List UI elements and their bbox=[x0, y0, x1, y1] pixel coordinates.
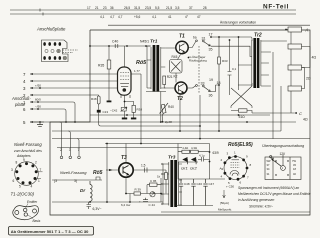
svg-text:Rö5: Rö5 bbox=[136, 60, 147, 66]
svg-text:4,4Ω: 4,4Ω bbox=[182, 146, 188, 150]
output resistor box 2 bbox=[288, 44, 302, 49]
T2 wires bbox=[164, 85, 196, 89]
connector pins row2 (4 black pins) bbox=[43, 56, 61, 60]
svg-text:6: 6 bbox=[13, 179, 15, 183]
top ruler voltage labels row1 bbox=[87, 6, 207, 10]
svg-text:+: + bbox=[139, 200, 141, 204]
svg-text:2Ω: 2Ω bbox=[306, 77, 311, 81]
svg-text:C40: C40 bbox=[112, 40, 118, 44]
inner Nivell-Fassung pins 2 3 7 bbox=[60, 122, 81, 159]
rectifier sub-box frame bbox=[178, 144, 225, 180]
electrolytic C47 bbox=[203, 179, 207, 206]
top ruler wire A bbox=[10, 9, 296, 11]
bus wire d bbox=[52, 130, 281, 132]
wire top inside box bbox=[90, 45, 150, 47]
transformer Tr2 core bars bbox=[253, 38, 256, 88]
svg-text:19: 19 bbox=[209, 78, 213, 82]
svg-text:NF-Teil: NF-Teil bbox=[263, 4, 289, 11]
ground symbol on wire 5 bbox=[37, 122, 43, 126]
pin wire 4 bbox=[30, 80, 118, 82]
svg-text:9: 9 bbox=[23, 158, 25, 162]
svg-text:N45/1: N45/1 bbox=[140, 40, 149, 44]
svg-text:+/50: +/50 bbox=[35, 84, 41, 88]
lower bus wires bbox=[52, 202, 310, 212]
svg-text:Tr2: Tr2 bbox=[254, 33, 262, 39]
svg-text:T1: T1 bbox=[179, 34, 185, 40]
svg-text:Anschluß-: Anschluß- bbox=[11, 96, 31, 101]
svg-text:R38: R38 bbox=[137, 108, 143, 112]
svg-text:−C42: −C42 bbox=[110, 109, 118, 113]
svg-text:23,5: 23,5 bbox=[145, 6, 151, 10]
Tr1 winding lines bbox=[146, 46, 166, 92]
svg-text:Übertragungsumschaltung: Übertragungsumschaltung bbox=[262, 144, 304, 148]
svg-text:+5,6: +5,6 bbox=[134, 15, 141, 19]
svg-text:4,1µ: 4,1µ bbox=[199, 154, 205, 158]
diode Gr1 bbox=[182, 157, 187, 162]
svg-text:6,2 Uw: 6,2 Uw bbox=[121, 203, 131, 207]
EL95 pin numbers bbox=[220, 151, 252, 186]
svg-text:zum Anschluß des: zum Anschluß des bbox=[13, 149, 42, 153]
transistor T3 bbox=[119, 163, 133, 177]
pin wire 3 with +/50 label bbox=[30, 87, 117, 89]
svg-text:3): 3) bbox=[74, 179, 77, 183]
svg-text:26,5: 26,5 bbox=[124, 6, 130, 10]
svg-text:Tr3: Tr3 bbox=[168, 155, 176, 161]
svg-text:7W: 7W bbox=[292, 159, 296, 163]
connector middle contacts bbox=[45, 49, 67, 60]
bus wire b bbox=[30, 121, 296, 123]
svg-text:Gr2: Gr2 bbox=[190, 166, 197, 171]
pin wire 7 bbox=[30, 73, 141, 75]
svg-text:K2: K2 bbox=[174, 75, 178, 79]
resistor R39 bbox=[134, 192, 141, 195]
svg-text:Meßpunkt: Meßpunkt bbox=[218, 208, 232, 212]
svg-text:63/9: 63/9 bbox=[213, 151, 219, 155]
tube cathode network C42 bbox=[125, 95, 134, 117]
resistor row wire bbox=[178, 151, 210, 153]
svg-text:6,3V~: 6,3V~ bbox=[93, 207, 102, 211]
diode row wire bbox=[178, 161, 198, 163]
capacitor C49 bbox=[145, 168, 148, 173]
svg-text:4: 4 bbox=[31, 185, 33, 189]
T1 emitter wire to switch bbox=[165, 42, 195, 49]
svg-text:T1-2(OC30): T1-2(OC30) bbox=[11, 192, 35, 197]
svg-text:4,3Ω: 4,3Ω bbox=[191, 146, 197, 150]
capacitor C43 bbox=[198, 157, 210, 162]
transformer Tr1 core bars bbox=[153, 45, 156, 92]
switch contact group upper (31/32) bbox=[196, 37, 252, 131]
switching box bbox=[265, 155, 301, 180]
svg-text:4,1: 4,1 bbox=[100, 15, 105, 19]
svg-text:A: A bbox=[305, 28, 309, 33]
electrolytic C48 bbox=[179, 179, 183, 206]
wire below heading bbox=[108, 24, 310, 26]
transformer Tr3 core bars bbox=[170, 160, 173, 207]
bus wire g bbox=[57, 147, 182, 149]
Tr2 input wires bbox=[238, 37, 247, 90]
svg-text:Strichlinie: 4,5V~: Strichlinie: 4,5V~ bbox=[249, 205, 273, 209]
svg-text:Meßbereichen DC/12V gegen Mass: Meßbereichen DC/12V gegen Masse und Erdl… bbox=[238, 192, 311, 196]
svg-text:51Ω: 51Ω bbox=[239, 115, 246, 119]
resistor R44 bbox=[182, 150, 190, 153]
svg-text:Nivell-Fassung: Nivell-Fassung bbox=[60, 170, 87, 175]
diode Gr3 circled bbox=[150, 192, 155, 197]
svg-text:C13: C13 bbox=[103, 110, 109, 114]
svg-text:Nivell-Fassung: Nivell-Fassung bbox=[14, 142, 42, 147]
svg-text:R 39: R 39 bbox=[135, 188, 142, 192]
diode Gr2 bbox=[191, 157, 196, 162]
svg-text:Anschlußplatte: Anschlußplatte bbox=[36, 27, 66, 32]
svg-text:7: 7 bbox=[40, 168, 42, 172]
bus junction dots bbox=[106, 84, 248, 144]
svg-text:R40: R40 bbox=[168, 105, 174, 109]
OC30 package outline bbox=[13, 206, 39, 220]
svg-text:Ag: Ag bbox=[220, 167, 224, 171]
svg-text:35: 35 bbox=[209, 48, 213, 52]
crossing output wires bbox=[231, 83, 252, 113]
svg-text:R45: R45 bbox=[172, 55, 178, 59]
Tr3 winding lines bbox=[162, 162, 183, 206]
svg-text:2: 2 bbox=[35, 161, 37, 165]
svg-text:(3: (3 bbox=[54, 179, 57, 183]
left socket circle pins bbox=[15, 162, 39, 186]
Tr2 winding lines bbox=[247, 37, 287, 86]
resistor R37 51ohm bbox=[239, 109, 248, 112]
svg-text:1,5: 1,5 bbox=[141, 164, 146, 168]
pin wire 5 bbox=[30, 121, 44, 123]
svg-text:C: C bbox=[299, 111, 302, 116]
svg-text:21: 21 bbox=[95, 6, 99, 10]
main frame border bbox=[50, 30, 310, 215]
svg-text:[50µA]: [50µA] bbox=[220, 201, 229, 205]
socket pin numbers bbox=[11, 158, 42, 189]
svg-text:47: 47 bbox=[197, 15, 201, 19]
svg-text:ba: ba bbox=[193, 36, 197, 40]
svg-text:17: 17 bbox=[209, 33, 213, 37]
tube Roe5 internals bbox=[120, 73, 130, 99]
svg-text:R33: R33 bbox=[222, 59, 228, 63]
svg-text:R48: R48 bbox=[91, 97, 97, 101]
svg-text:1: 1 bbox=[38, 179, 40, 183]
transistor T1 bbox=[176, 41, 188, 53]
switch contact group lower (33/36) bbox=[196, 85, 219, 92]
svg-text:3: 3 bbox=[69, 148, 71, 152]
resistor R35b bbox=[150, 183, 158, 186]
svg-text:+ C50: + C50 bbox=[226, 185, 234, 189]
svg-text:C47: C47 bbox=[209, 182, 215, 186]
svg-text:C48: C48 bbox=[184, 182, 190, 186]
svg-text:33: 33 bbox=[201, 82, 205, 86]
capacitor C40 bbox=[115, 44, 118, 48]
bottom designation strip bbox=[9, 227, 94, 236]
tube Roe5 envelope bbox=[118, 67, 132, 95]
dashed linkage line bbox=[198, 46, 200, 93]
svg-text:4Ω: 4Ω bbox=[303, 118, 308, 122]
capacitor C13 electrolytic bbox=[97, 110, 101, 113]
bus wire f bbox=[105, 143, 210, 145]
pin wire 6 with -/50 label bbox=[30, 109, 66, 122]
measurement note text bbox=[238, 186, 311, 202]
svg-text:Tr1: Tr1 bbox=[150, 39, 158, 45]
svg-text:C46: C46 bbox=[197, 182, 203, 186]
bias network wires bbox=[126, 178, 161, 202]
box connect wires bbox=[273, 30, 310, 139]
svg-text:3: 3 bbox=[11, 168, 13, 172]
svg-text:37: 37 bbox=[189, 6, 193, 10]
heater wire with 3 3 contacts bbox=[52, 177, 102, 180]
svg-text:28: 28 bbox=[203, 6, 207, 10]
switching box internal labels bbox=[267, 159, 297, 176]
T3 wires bbox=[106, 144, 166, 194]
svg-text:Rö5(EL95): Rö5(EL95) bbox=[228, 142, 253, 148]
ground bars under tube bbox=[122, 118, 127, 120]
svg-text:R35: R35 bbox=[98, 64, 104, 68]
svg-text:31,5: 31,5 bbox=[134, 6, 140, 10]
capacitor C44 bbox=[143, 198, 148, 202]
svg-text:41: 41 bbox=[168, 15, 172, 19]
wire vertical to R35 bbox=[108, 46, 110, 101]
svg-text:Dr: Dr bbox=[80, 188, 85, 193]
svg-text:0,1: 0,1 bbox=[232, 67, 237, 71]
svg-text:R21: R21 bbox=[167, 75, 173, 79]
svg-text:Basis: Basis bbox=[33, 219, 41, 223]
svg-text:2: 2 bbox=[60, 148, 62, 152]
svg-text:23: 23 bbox=[103, 6, 107, 10]
pin wire 2 bbox=[30, 94, 99, 96]
svg-text:36: 36 bbox=[209, 94, 213, 98]
svg-text:1k: 1k bbox=[157, 175, 161, 179]
svg-text:3,5: 3,5 bbox=[175, 6, 180, 10]
tick marks top ruler bbox=[40, 9, 43, 16]
svg-text:5W: 5W bbox=[267, 159, 271, 163]
svg-text:Spannungen mit Instrument (666: Spannungen mit Instrument (6666Ω/V) an bbox=[238, 186, 299, 190]
svg-text:Gr1: Gr1 bbox=[181, 166, 188, 171]
svg-text:1,77: 1,77 bbox=[134, 69, 140, 73]
pin wire 1 with 60/0 label bbox=[30, 102, 75, 122]
top ruler voltage labels row2 bbox=[100, 15, 201, 19]
transistor T2 bbox=[175, 82, 187, 94]
electrolytic C46 bbox=[191, 179, 195, 206]
svg-text:Emitter: Emitter bbox=[27, 200, 38, 204]
bus wire a bbox=[90, 114, 270, 116]
node junction bbox=[126, 45, 128, 47]
bus wire e bbox=[52, 138, 310, 140]
EL95 socket internals bbox=[230, 160, 240, 176]
svg-text:12V: 12V bbox=[280, 152, 287, 156]
capacitor at Dr bbox=[87, 202, 92, 209]
svg-text:4Ω: 4Ω bbox=[312, 56, 317, 60]
vertical drop wires mid bbox=[141, 74, 200, 144]
capacitor C41 bbox=[229, 40, 231, 95]
svg-text:−/50: −/50 bbox=[35, 105, 41, 109]
svg-text:Rückkopplung: Rückkopplung bbox=[189, 59, 207, 63]
svg-text:4,1: 4,1 bbox=[152, 15, 157, 19]
connector pins row1 (4 black pins) bbox=[43, 42, 61, 46]
svg-text:17: 17 bbox=[87, 6, 91, 10]
svg-text:Ab Gerätenummer 501 T 1 – T 3: Ab Gerätenummer 501 T 1 – T 3 — OC 30 bbox=[11, 229, 89, 234]
thermistor R40 bbox=[160, 103, 169, 114]
connector plate outline bbox=[42, 40, 79, 62]
feedback network box bbox=[170, 60, 183, 74]
svg-text:Rö5: Rö5 bbox=[93, 170, 103, 176]
resistor R19 bbox=[163, 76, 166, 85]
svg-text:C 44: C 44 bbox=[149, 203, 156, 207]
svg-text:8: 8 bbox=[16, 161, 18, 165]
svg-text:4,7: 4,7 bbox=[118, 15, 123, 19]
resistor R45 bbox=[191, 150, 199, 153]
resistor R48 bbox=[97, 96, 100, 104]
output resistor box 3 bbox=[288, 65, 302, 70]
svg-text:in Ausführung gemessen: in Ausführung gemessen bbox=[238, 198, 275, 202]
choke Dr coil bbox=[90, 181, 92, 202]
svg-text:5: 5 bbox=[19, 185, 21, 189]
pin C bbox=[252, 112, 294, 114]
svg-text:4,7: 4,7 bbox=[110, 15, 115, 19]
EL95 socket circle pins bbox=[224, 157, 247, 180]
resistor R35 bbox=[107, 60, 111, 69]
output resistor box 1 bbox=[288, 27, 302, 32]
svg-text:21,5: 21,5 bbox=[166, 6, 172, 10]
svg-text:5,5: 5,5 bbox=[155, 6, 160, 10]
svg-text:7: 7 bbox=[78, 148, 80, 152]
svg-text:Änderungen vorbehalten: Änderungen vorbehalten bbox=[220, 21, 256, 25]
svg-text:31: 31 bbox=[202, 37, 206, 41]
svg-text:36: 36 bbox=[110, 6, 114, 10]
svg-text:C 95: C 95 bbox=[150, 179, 157, 183]
svg-text:60/0: 60/0 bbox=[35, 98, 41, 102]
top ruler wire B bbox=[10, 13, 296, 15]
output resistor box 4 bbox=[288, 86, 302, 91]
resistor R38 bbox=[132, 105, 135, 112]
